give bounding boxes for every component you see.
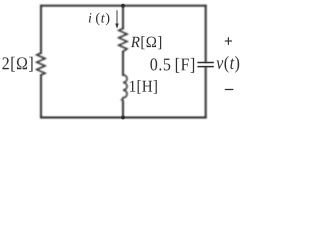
wire bottom xyxy=(41,117,206,119)
wire right lower xyxy=(205,67,207,117)
wire left upper xyxy=(40,6,42,53)
label minus sign xyxy=(225,89,234,91)
wire middle upper xyxy=(122,6,124,29)
node bottom junction xyxy=(121,116,125,120)
label R[ohm] xyxy=(131,36,161,49)
label plus sign xyxy=(225,37,232,45)
wire middle lower xyxy=(122,102,124,118)
current arrow for i(t) xyxy=(116,10,119,28)
label 0.5[F] xyxy=(150,58,194,73)
label 2[ohm] xyxy=(2,57,32,72)
label v(t) xyxy=(216,56,239,73)
resistor R zigzag xyxy=(119,29,127,52)
wire middle between R and L xyxy=(122,52,124,75)
node top junction xyxy=(121,4,125,8)
label i(t) xyxy=(89,13,110,26)
resistor 2ohm zigzag xyxy=(37,53,45,75)
inductor L coil xyxy=(122,75,127,102)
capacitor C plates xyxy=(197,63,213,67)
label 1[H] xyxy=(130,80,157,94)
wire top xyxy=(41,5,206,7)
wire left lower xyxy=(40,75,42,118)
wire right upper xyxy=(205,6,207,62)
